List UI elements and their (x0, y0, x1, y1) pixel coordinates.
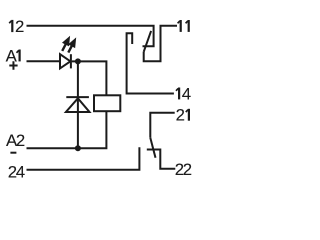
wire 22 lead (NC of contact K2) (147, 150, 176, 169)
wire coil to A2 line (27, 111, 107, 148)
relay coil K1 box (94, 95, 120, 111)
wire diode branch vertical (77, 61, 79, 148)
plus sign of A1 (9, 61, 17, 69)
svg-text:4: 4 (182, 84, 191, 103)
svg-text:A2: A2 (6, 131, 25, 150)
junction node on A1 line (75, 58, 81, 64)
svg-text:2: 2 (176, 106, 185, 125)
LED D1 cathode bar (70, 54, 72, 68)
minus sign of A2 (10, 152, 16, 154)
terminal label 14 (176, 88, 179, 100)
terminal label 11 (178, 20, 181, 32)
svg-text:2: 2 (15, 17, 24, 36)
terminal label 12 (9, 20, 12, 32)
wire 24 lead with NO stub of contact K2 (27, 147, 140, 170)
wire 11 lead (common of contact K1) (144, 26, 177, 61)
LED arrow 1 (62, 39, 68, 51)
wire 21 lead (common of contact K2) (150, 113, 174, 138)
contact K2 movable blade (150, 138, 155, 158)
LED D1 triangle (60, 54, 70, 68)
svg-text:A: A (6, 46, 18, 65)
svg-text:24: 24 (8, 163, 25, 182)
wire A1 right segment down to coil (72, 61, 107, 95)
wire 14 lead with claw (NO of contact K1) (127, 33, 174, 93)
LED arrow 2 (68, 40, 74, 52)
contact K1 movable blade (144, 31, 151, 52)
svg-text:22: 22 (175, 160, 192, 179)
junction node on A2 line (75, 145, 81, 151)
diode D2 triangle (66, 98, 90, 112)
wire A1 left segment (27, 60, 61, 62)
wire 12 lead (NC of contact K1) (27, 26, 154, 47)
diode D2 cathode bar (66, 96, 89, 98)
